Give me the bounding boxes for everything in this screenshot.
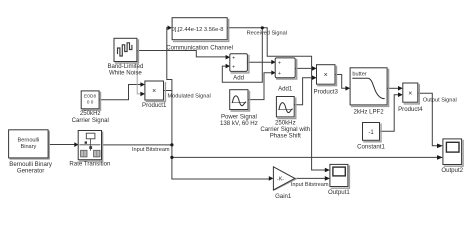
svg-text:Rate Transition: Rate Transition — [69, 161, 110, 168]
block Output2 scope — [441, 139, 463, 174]
svg-text:Generator: Generator — [17, 168, 44, 175]
wire Rate Transition output Input Bitstream — [101, 144, 172, 146]
svg-text:Binary: Binary — [20, 144, 36, 150]
wire Add to Add1 input1 — [248, 61, 272, 63]
wire Communication Channel output Received Signal — [228, 28, 325, 170]
svg-text:Output Signal: Output Signal — [423, 98, 457, 104]
wire 250kHz carrier to Product1 input1 — [99, 85, 141, 100]
svg-text:+: + — [278, 60, 281, 66]
wire Gain1 to Output1 input2 — [295, 177, 325, 179]
svg-text:+: + — [232, 55, 235, 61]
svg-text:Product3: Product3 — [314, 88, 339, 95]
svg-text:-K-: -K- — [277, 177, 284, 183]
svg-text:Communication Channel: Communication Channel — [166, 45, 233, 52]
arrowhead into Product1 input2 — [140, 92, 145, 97]
wire Bernoulli to Rate Transition — [48, 144, 74, 146]
arrowhead into Output2 input2 — [437, 155, 443, 160]
svg-text:Carrier Signal: Carrier Signal — [72, 117, 109, 124]
wire Constant1 to Product4 input2 — [380, 95, 398, 132]
svg-text:-1: -1 — [368, 130, 374, 136]
svg-text:Constant1: Constant1 — [357, 144, 385, 151]
svg-text:+: + — [232, 64, 235, 70]
wire Add1 to Product3 input1 — [295, 67, 312, 69]
svg-text:Product4: Product4 — [398, 106, 423, 113]
arrowhead into Product1 input1 — [140, 82, 145, 87]
wire white noise branch to Product1 input2 — [137, 51, 140, 94]
svg-text:Modulated Signal: Modulated Signal — [168, 94, 211, 100]
arrowhead into Product3 input1 — [312, 66, 317, 71]
wire white noise to Add input1 — [137, 51, 226, 57]
block Bernoulli Binary Generator — [9, 130, 53, 175]
svg-text:Gain1: Gain1 — [275, 193, 292, 200]
wire into Communication Channel — [166, 27, 169, 29]
block Gain1 triangle — [273, 167, 296, 200]
svg-text:0 0: 0 0 — [87, 99, 94, 104]
svg-text:×: × — [324, 72, 328, 79]
svg-text:Input Bitstream: Input Bitstream — [132, 147, 170, 153]
arrowhead into Add1 input2 — [271, 70, 275, 75]
arrowhead into Add input2 — [226, 64, 230, 69]
svg-text:Input Bitstream: Input Bitstream — [291, 182, 329, 188]
arrowhead into Product4 input1 — [398, 86, 403, 91]
arrowhead into Communication Channel — [168, 26, 172, 31]
arrowhead into Output1 input1 — [325, 168, 330, 173]
svg-text:E0D8: E0D8 — [84, 94, 97, 99]
wire bitstream to Gain1 — [172, 178, 269, 180]
wire received branch to Add input2 — [222, 28, 262, 82]
block Output1 scope — [328, 164, 350, 196]
arrowhead into Output2 input1 — [437, 144, 443, 149]
svg-text:Received Signal: Received Signal — [247, 31, 287, 37]
block 250kHz Carrier Signal with Phase Shift sine wave — [260, 97, 310, 140]
junction node on bitstream at Product1 column — [170, 143, 173, 146]
block 250kHz Carrier Signal — [72, 91, 109, 124]
wire Power Signal to Add1 input2 — [248, 73, 272, 100]
svg-text:138 kV, 60 Hz: 138 kV, 60 Hz — [220, 120, 258, 127]
wire Product1 output stub Modulated Signal — [164, 90, 172, 92]
junction node Received Signal branch — [261, 26, 264, 29]
arrowhead into Output1 input2 — [325, 176, 330, 181]
wire bitstream vertical trunk — [167, 28, 172, 179]
wire long bitstream to Output2 lower input — [172, 156, 437, 158]
wire butter to Product4 input1 — [388, 87, 398, 89]
wire Carrier w Phase Shift to Product3 input2 — [294, 78, 312, 105]
block butter 2kHz LPF2 analog filter — [350, 68, 389, 116]
block Power Signal sine wave — [220, 90, 258, 127]
svg-text:Phase Shift: Phase Shift — [270, 132, 301, 139]
svg-text:×: × — [408, 90, 412, 97]
block Constant1 — [357, 123, 385, 151]
svg-text:White Noise: White Noise — [109, 70, 142, 77]
block Product1 — [142, 81, 167, 109]
block Product4 — [398, 83, 423, 113]
wire Product3 to butter filter — [336, 75, 346, 89]
svg-text:0],[2.44e-12 3.56e-8: 0],[2.44e-12 3.56e-8 — [172, 27, 224, 33]
svg-text:Output1: Output1 — [328, 189, 350, 196]
arrowhead into Product4 input2 — [398, 92, 403, 97]
block Band-Limited White Noise — [107, 38, 143, 76]
block Rate Transition — [69, 131, 110, 168]
arrowhead into Add input1 — [226, 55, 230, 60]
svg-text:Output2: Output2 — [441, 167, 463, 174]
svg-text:+: + — [278, 71, 281, 77]
block Add1 — [275, 58, 297, 93]
svg-text:2kHz LPF2: 2kHz LPF2 — [354, 108, 385, 115]
arrowhead into Product3 input2 — [312, 75, 317, 80]
arrowhead into Rate Transition — [74, 142, 78, 147]
junction node bitstream to long wire — [170, 156, 173, 159]
wire Product4 Output Signal to Output2 input1 — [419, 93, 438, 146]
svg-text:Add1: Add1 — [278, 86, 293, 93]
arrowhead into Gain1 — [269, 176, 274, 181]
svg-text:butter: butter — [352, 71, 366, 77]
block Communication Channel — [166, 18, 233, 52]
arrowhead into Add1 input1 — [271, 60, 275, 65]
block Product3 — [314, 65, 339, 96]
svg-text:Add: Add — [233, 74, 244, 81]
svg-text:×: × — [152, 88, 156, 95]
arrowhead into butter filter — [345, 86, 350, 91]
svg-text:Product1: Product1 — [142, 102, 167, 109]
svg-text:Bernoulli: Bernoulli — [18, 138, 40, 144]
block Add — [230, 54, 249, 82]
